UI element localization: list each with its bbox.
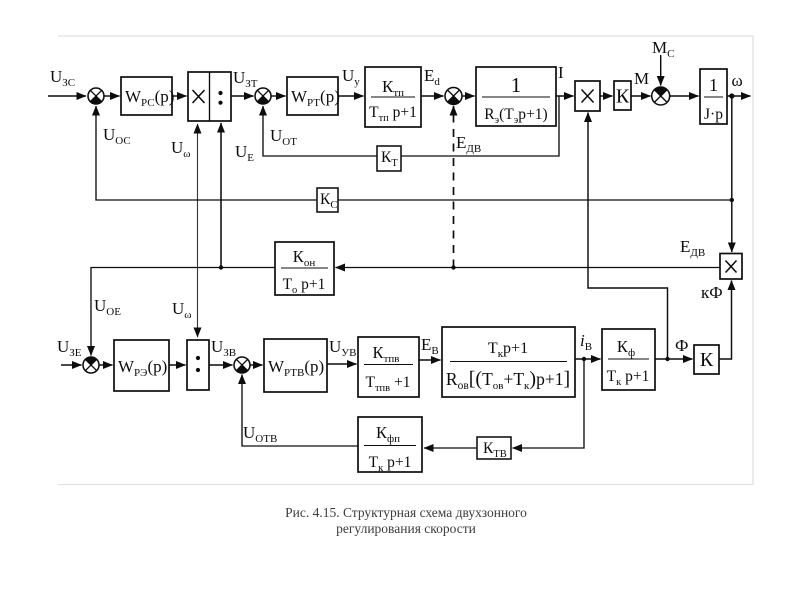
wire U_OTV to J2b	[242, 375, 358, 447]
block W_RE(p)	[114, 340, 169, 391]
block W_PT(p)	[287, 77, 340, 115]
svg-text:ЕДВ: ЕДВ	[456, 133, 481, 155]
wire Re to multiplier, tap for Kt	[556, 95, 574, 97]
wire multdiv to J2	[231, 95, 254, 97]
block divider bottom	[187, 340, 209, 390]
svg-text:Uω: Uω	[172, 299, 192, 321]
block K_C	[317, 188, 338, 212]
svg-text:1: 1	[709, 75, 718, 95]
svg-text:UЗТ: UЗТ	[233, 68, 258, 90]
wire Ktp to J3	[421, 95, 444, 97]
wire kF up into EMF multiplier	[719, 281, 732, 360]
wire mult to K	[600, 95, 613, 97]
wire Ktv to Kfp	[424, 447, 477, 449]
svg-text:1: 1	[511, 73, 522, 97]
svg-text:UЕ: UЕ	[235, 142, 254, 164]
wire F up to torque multiplier	[588, 113, 668, 360]
svg-text:ω: ω	[732, 71, 743, 90]
node iv tap	[582, 357, 586, 361]
svg-text:iВ: iВ	[580, 331, 592, 353]
block K_T	[377, 146, 401, 171]
svg-text:Uу: Uу	[342, 66, 360, 88]
svg-text:M: M	[634, 69, 649, 88]
svg-text:UОТ: UОТ	[270, 126, 297, 148]
block W_PC(p)	[121, 77, 174, 115]
wire J2 to Wpt	[271, 95, 286, 97]
node UE tee	[219, 265, 223, 269]
svg-text:Ed: Ed	[424, 66, 440, 88]
wire J3 to Re block	[462, 95, 475, 97]
wire Wrtv to Ktpv	[327, 363, 357, 365]
wire U_omega vertical double arrow	[197, 124, 199, 337]
wire iv down to Ktv	[513, 359, 585, 448]
block W_RTV(p)	[264, 339, 327, 392]
block K2 (gain)	[694, 345, 719, 374]
wire input Uze	[61, 364, 82, 366]
svg-text:регулирования скорости: регулирования скорости	[336, 521, 476, 536]
svg-text:Ф: Ф	[675, 336, 688, 355]
svg-text:UЗВ: UЗВ	[211, 337, 236, 359]
svg-text:UОС: UОС	[103, 125, 131, 147]
svg-text:Uω: Uω	[171, 138, 191, 160]
wire J1 to Wpc	[104, 95, 120, 97]
block K (gain)	[614, 81, 631, 110]
wire Rov to Kf	[575, 358, 601, 360]
block Kfp/(Tkp+1)	[358, 417, 422, 474]
svg-text:UОТВ: UОТВ	[243, 423, 277, 445]
wire Kc feedback to J1	[96, 106, 732, 200]
wire Kf to K2	[655, 358, 693, 360]
block Ktp/(Ttp p+1)	[365, 67, 421, 127]
svg-text:кФ: кФ	[701, 283, 723, 302]
svg-text:J·р: J·р	[704, 106, 723, 123]
wire U_E up into divider	[220, 123, 222, 268]
block 1/(Re(Tep+1))	[476, 67, 556, 126]
wire E_DV dashed up to J3	[453, 106, 455, 268]
summing junction J2	[255, 88, 271, 104]
wire M_C into J4	[660, 55, 662, 86]
svg-text:К: К	[700, 349, 714, 371]
block Ktpv/(Ttpv+1)	[358, 337, 419, 397]
svg-text:I: I	[558, 63, 564, 82]
node F tap	[665, 357, 669, 361]
summing junction J2b	[234, 357, 250, 373]
wire K to J4	[631, 95, 651, 97]
block K_TV	[477, 437, 511, 460]
wire Wre to divider	[169, 364, 186, 366]
block 1/Jp	[700, 69, 727, 124]
node omega	[729, 93, 734, 98]
summing junction J4	[652, 87, 670, 105]
svg-text:ЕДВ: ЕДВ	[680, 237, 705, 259]
summing junction J3	[445, 88, 462, 105]
node dashed junction	[451, 265, 455, 269]
wire J2b to Wrtv	[250, 364, 263, 366]
node omega-Kc tap	[730, 198, 734, 202]
block multiplier X (torque)	[575, 81, 600, 111]
wire Wpc to multdiv	[172, 95, 187, 97]
block Kon/(Top+1)	[275, 242, 334, 296]
wire EMF to Kon	[336, 267, 721, 269]
wire Kon out left and down to J1b	[91, 268, 275, 356]
wire omega output	[727, 95, 751, 97]
wire omega down to EMF multiplier	[731, 96, 733, 252]
wire divider to J2b	[209, 364, 233, 366]
block (Tkp+1)/(Rov[(Tov+Tk)p+1])	[442, 327, 575, 397]
frame border	[58, 36, 753, 485]
summing junction J1b	[83, 357, 99, 373]
block multiplier-divider	[188, 72, 231, 121]
wire J4 to Jp block	[670, 95, 699, 97]
svg-text:UОЕ: UОЕ	[94, 296, 121, 318]
svg-text:UЗС: UЗС	[50, 67, 75, 89]
summing junction J1	[88, 88, 104, 104]
svg-text:UЗЕ: UЗЕ	[57, 337, 82, 359]
svg-text:ЕВ: ЕВ	[421, 335, 439, 357]
block Kf/(Tkp+1)	[602, 329, 655, 390]
svg-text:Рис. 4.15. Структурная схема д: Рис. 4.15. Структурная схема двухзонного	[285, 505, 527, 520]
wire Wpt to Ktp	[338, 95, 364, 97]
wire Kt feedback from I tap to J2	[263, 96, 559, 156]
wire J1b to Wre	[99, 364, 113, 366]
svg-text:МС: МС	[652, 38, 674, 60]
svg-text:UУВ: UУВ	[329, 337, 356, 359]
block EMF multiplier X	[720, 254, 742, 280]
wire Ktpv to Rov block	[419, 359, 441, 361]
svg-text:К: К	[616, 86, 630, 108]
wire input Uzs	[48, 95, 86, 97]
